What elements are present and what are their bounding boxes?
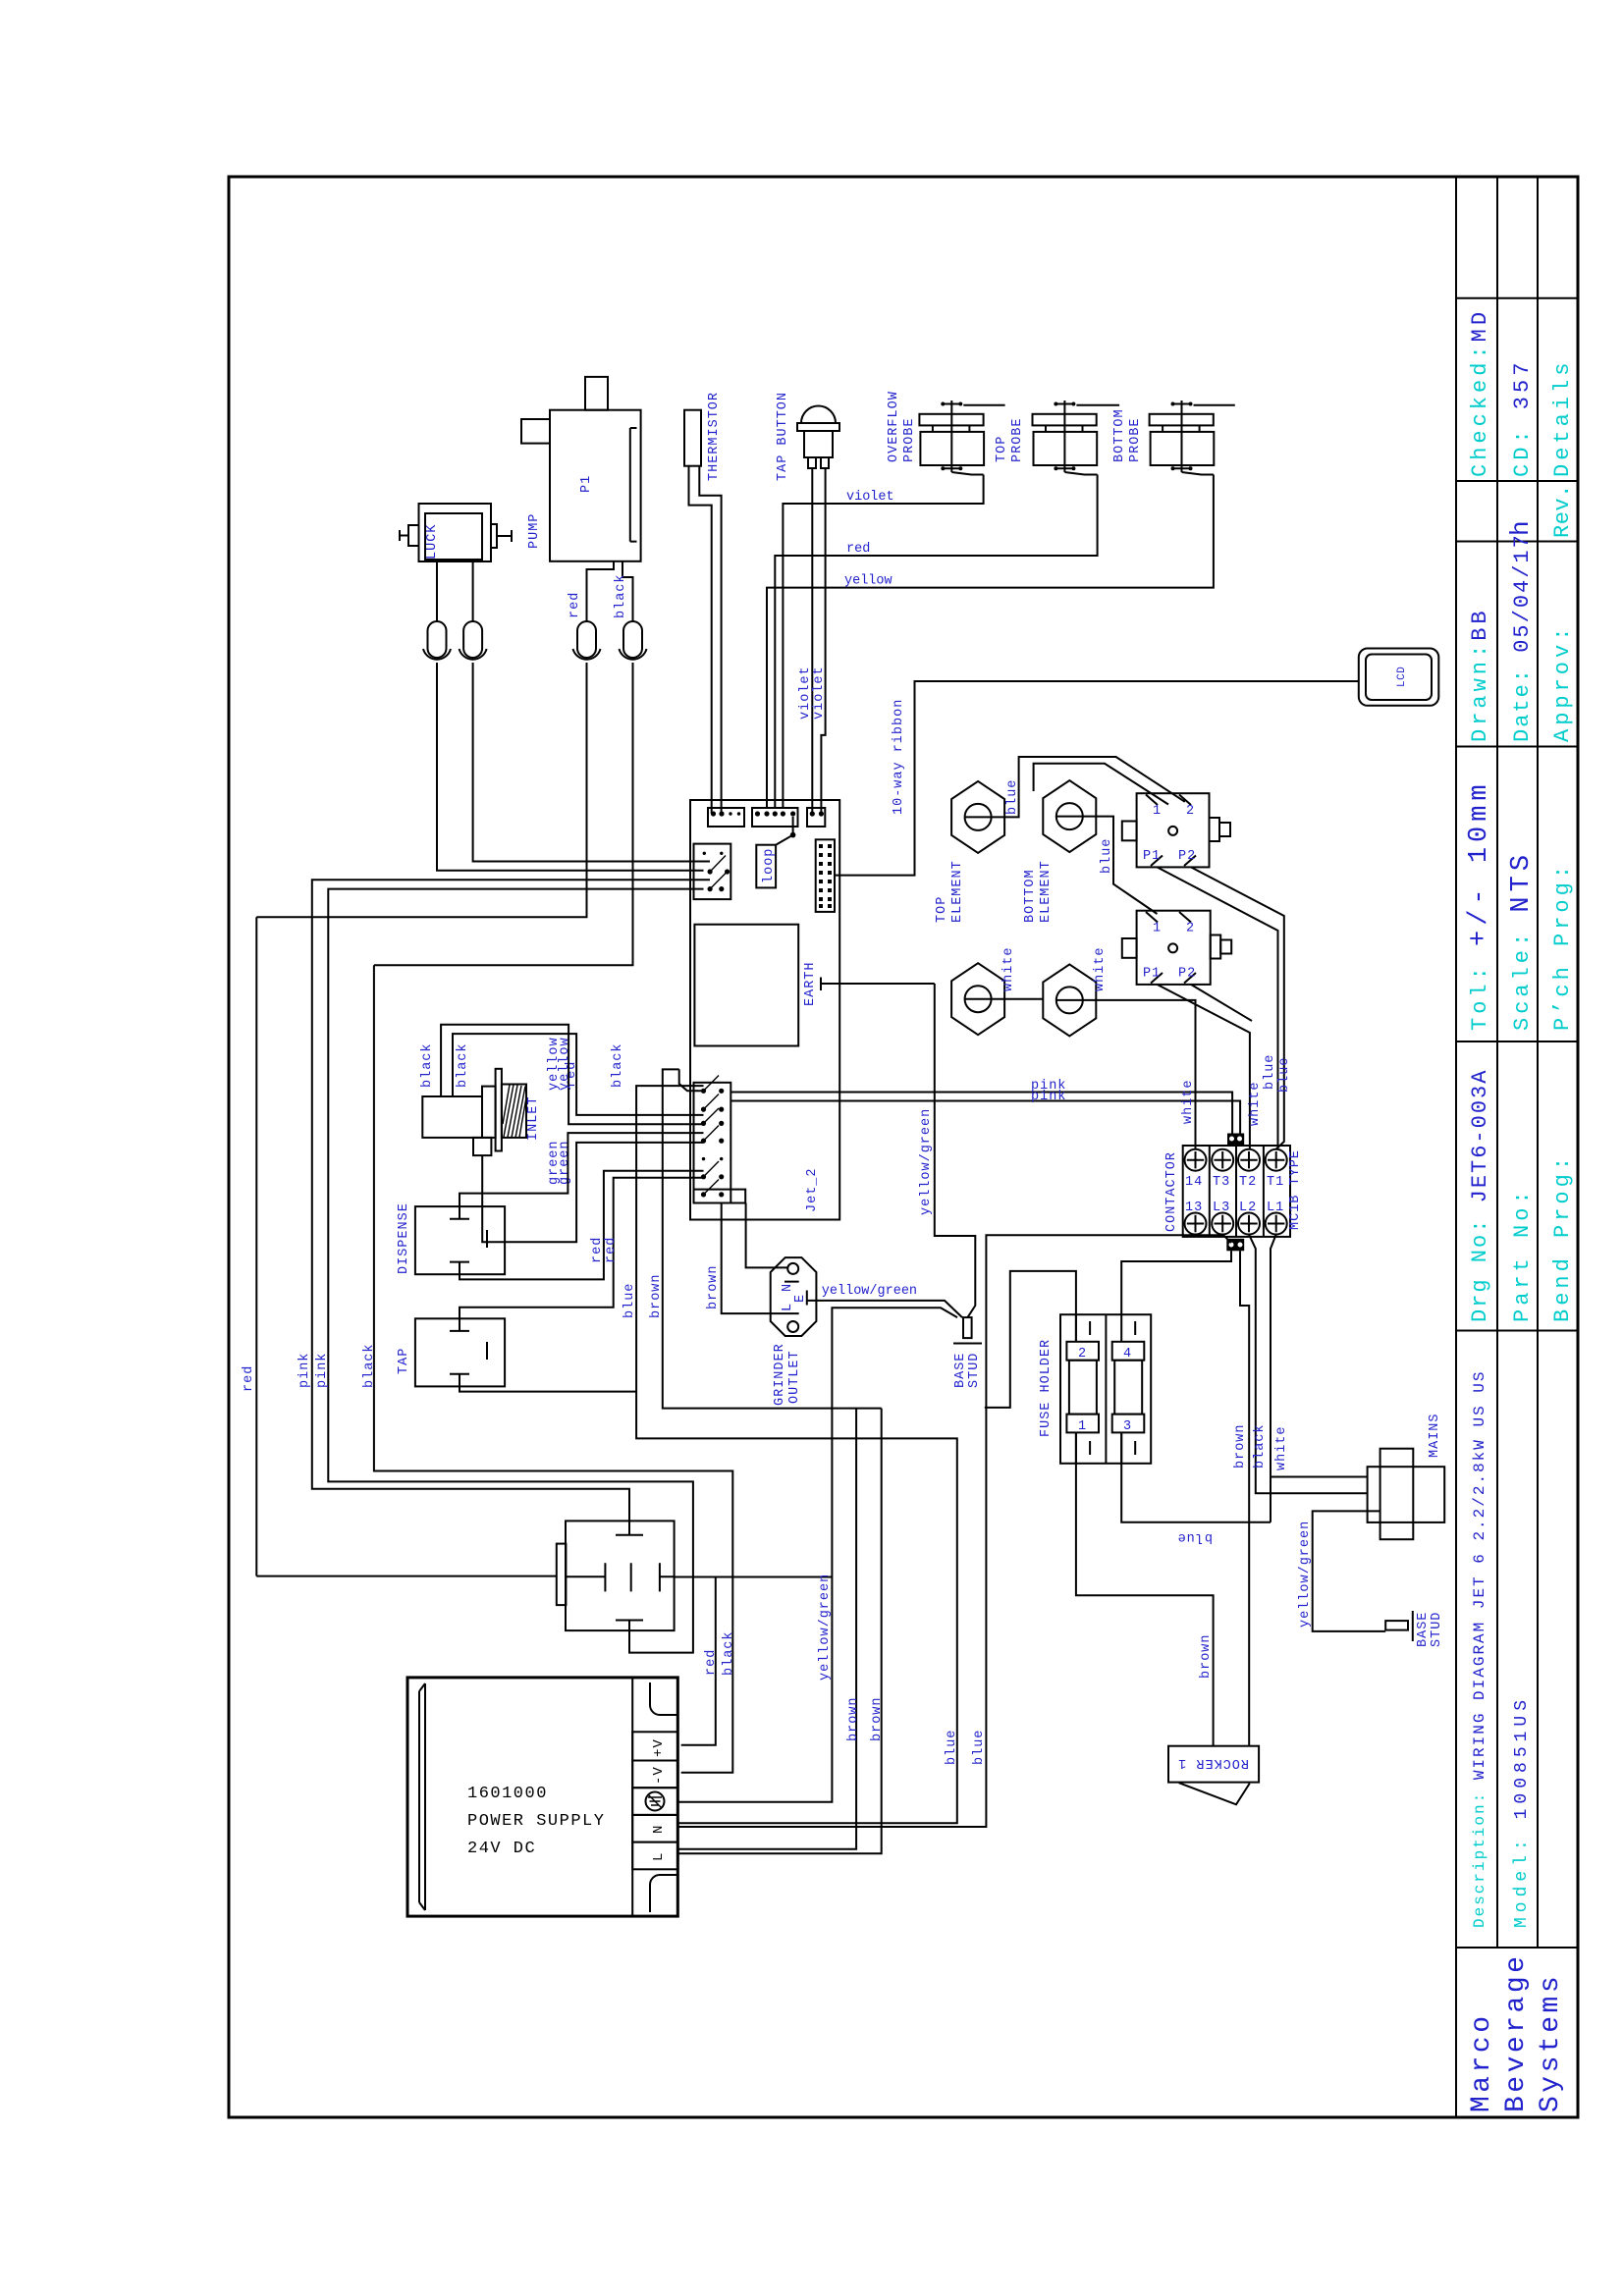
svg-text:Checked:MD: Checked:MD: [1468, 308, 1492, 477]
top element bottom terminal (hex nut): [951, 963, 1004, 1035]
svg-text:brown: brown: [1199, 1633, 1214, 1679]
svg-text:black: black: [420, 1042, 435, 1088]
svg-text:pink: pink: [298, 1353, 312, 1388]
wire pump red bullet to red bus: [256, 663, 586, 917]
svg-text:STUD: STUD: [967, 1353, 982, 1388]
thermostat 2: [1122, 911, 1231, 985]
svg-text:loop: loop: [762, 848, 777, 883]
fuse holder: [1039, 1314, 1151, 1464]
bullet connector: [577, 621, 596, 658]
svg-text:blue: blue: [972, 1730, 987, 1765]
lock switch LUCK: [419, 504, 492, 561]
title block grid: [1456, 178, 1538, 2117]
svg-text:yellow/green: yellow/green: [1298, 1521, 1313, 1628]
wire yellow/green: grinder E to base stud: [807, 1301, 962, 1317]
svg-text:N: N: [781, 1284, 795, 1292]
svg-text:yellow: yellow: [558, 1037, 572, 1091]
svg-text:13: 13: [1185, 1201, 1203, 1215]
svg-text:BOTTOM: BOTTOM: [1112, 408, 1127, 462]
contactor terminal L3: [1212, 1213, 1233, 1235]
svg-text:L1: L1: [1267, 1201, 1284, 1215]
svg-text:green: green: [558, 1140, 572, 1185]
svg-text:GRINDER: GRINDER: [773, 1343, 787, 1406]
wire pink pair to contactor connector: [730, 1093, 1240, 1134]
thermistor: [684, 410, 701, 466]
svg-text:red: red: [242, 1365, 256, 1392]
wire tap button to PCB (violet violet): [812, 468, 825, 814]
svg-text:L2: L2: [1239, 1201, 1257, 1215]
svg-text:brown: brown: [846, 1696, 861, 1741]
svg-text:CONTACTOR: CONTACTOR: [1164, 1151, 1179, 1232]
svg-text:STUD: STUD: [1430, 1612, 1444, 1647]
svg-text:h: h: [1506, 516, 1536, 536]
svg-text:THERMISTOR: THERMISTOR: [707, 392, 722, 481]
svg-text:black: black: [611, 1042, 625, 1088]
wire white: element bottom terminals to contactor T4: [992, 999, 1196, 1149]
svg-text:blue: blue: [1177, 1529, 1213, 1544]
wire thermistor to PCB: [689, 466, 722, 814]
page border frame: [229, 177, 1578, 2117]
mains connector: [1368, 1413, 1445, 1539]
svg-text:TOP: TOP: [935, 896, 949, 923]
svg-text:brown: brown: [870, 1696, 885, 1741]
svg-text:red: red: [704, 1649, 719, 1676]
svg-text:-V: -V: [651, 1766, 667, 1785]
tap button: [801, 406, 836, 423]
wire earth / yellow-green down to base stud: [935, 984, 976, 1317]
svg-text:T2: T2: [1239, 1175, 1257, 1190]
svg-text:brown: brown: [649, 1273, 664, 1318]
power supply unit: [407, 1678, 677, 1916]
wire fuse2 top loop: [985, 1271, 1076, 1408]
svg-text:red: red: [568, 592, 582, 618]
svg-text:PROBE: PROBE: [1010, 417, 1025, 462]
svg-text:L: L: [781, 1304, 795, 1311]
wire pump black bullet to black bus: [374, 663, 633, 965]
contactor terminal T2: [1238, 1149, 1260, 1171]
connector J1 (thermistor header): [708, 808, 744, 827]
loop jumper: [776, 817, 793, 845]
svg-text:ELEMENT: ELEMENT: [1039, 860, 1054, 923]
svg-text:ELEMENT: ELEMENT: [950, 860, 965, 923]
big IC block: [694, 925, 798, 1046]
bullet connector: [428, 621, 447, 658]
svg-text:+V: +V: [651, 1738, 667, 1757]
left bus wire red: [255, 917, 257, 1575]
contactor terminal T3: [1212, 1149, 1233, 1171]
svg-text:1: 1: [1078, 1419, 1087, 1434]
svg-text:P2: P2: [1178, 967, 1196, 982]
svg-text:violet: violet: [846, 490, 894, 505]
bullet connector: [463, 621, 482, 658]
svg-text:white: white: [1248, 1081, 1263, 1126]
connector 2x7 (bottom header): [694, 1083, 731, 1203]
wire 10-way ribbon: LCD to PCB header: [835, 681, 1359, 876]
wire pump to bullets (red, black): [587, 561, 633, 621]
rocker switch: [1168, 1746, 1259, 1805]
coil connector block top: [1227, 1134, 1244, 1146]
wire to fuse 4: [1121, 1251, 1231, 1314]
svg-text:INLET: INLET: [526, 1095, 541, 1141]
svg-text:Details: Details: [1550, 359, 1575, 477]
wire blue: bottom element to thermostat 2: [1083, 817, 1158, 914]
svg-text:10-way ribbon: 10-way ribbon: [892, 699, 906, 815]
svg-text:1: 1: [1153, 922, 1162, 936]
bottom element bottom terminal (hex nut): [1043, 964, 1096, 1036]
contactor terminal 13: [1185, 1213, 1207, 1235]
wire white: thermostat2 P1 to contactor T2: [1158, 867, 1284, 1148]
wire red: top probe to PCB: [775, 475, 1097, 809]
wire blue: PCB to PSU N: [636, 1086, 957, 1823]
svg-text:violet: violet: [812, 666, 827, 720]
left bus wire pink1: [312, 880, 710, 1521]
svg-text:black: black: [722, 1630, 736, 1676]
wire blue: top element to thermostat 1: [992, 757, 1185, 817]
svg-text:yellow/green: yellow/green: [822, 1284, 917, 1299]
svg-text:14: 14: [1185, 1175, 1203, 1190]
wire yellow: bottom probe to PCB: [767, 475, 1214, 809]
svg-text:OVERFLOW: OVERFLOW: [887, 391, 901, 462]
svg-text:black: black: [614, 573, 628, 618]
connector J3 (tap button header): [807, 808, 825, 827]
svg-text:Jet_2: Jet_2: [805, 1167, 820, 1212]
svg-text:2: 2: [1186, 922, 1195, 936]
svg-text:brown: brown: [1233, 1423, 1248, 1468]
svg-text:Marco: Marco: [1467, 2012, 1497, 2112]
svg-text:Drawn:BB: Drawn:BB: [1468, 607, 1492, 742]
svg-text:Approv:: Approv:: [1550, 624, 1575, 742]
wire relay left pin to red bus: [256, 1575, 557, 1577]
wire black: L2 to mains: [1249, 1235, 1368, 1494]
svg-text:2: 2: [1078, 1347, 1087, 1362]
svg-text:LCD: LCD: [1396, 667, 1408, 687]
wire relay right pin / red to +V: [675, 1577, 833, 1745]
svg-text:ROCKER 1: ROCKER 1: [1177, 1755, 1249, 1770]
svg-text:Beverage: Beverage: [1501, 1953, 1532, 2112]
svg-text:T3: T3: [1213, 1175, 1230, 1190]
svg-text:POWER SUPPLY: POWER SUPPLY: [467, 1812, 605, 1831]
base stud bottom right: [1385, 1611, 1444, 1647]
left bus wire pink2: [328, 889, 703, 1653]
svg-text:P1: P1: [1143, 849, 1161, 864]
relay box: [557, 1521, 675, 1630]
wire second top feed to thermostat 1: [1034, 764, 1168, 805]
svg-text:red: red: [846, 542, 870, 557]
svg-text:P1: P1: [579, 475, 594, 493]
contactor terminal T4: [1185, 1149, 1207, 1171]
svg-text:blue: blue: [1263, 1054, 1277, 1090]
svg-text:BASE: BASE: [953, 1353, 968, 1388]
wire grinder N to PCB: [746, 1203, 788, 1268]
svg-text:TAP BUTTON: TAP BUTTON: [776, 392, 790, 481]
svg-text:OUTLET: OUTLET: [787, 1350, 802, 1404]
thermostat 1: [1122, 793, 1230, 867]
svg-text:brown: brown: [706, 1264, 721, 1309]
svg-text:TOP: TOP: [995, 436, 1009, 462]
svg-text:Date: 05/04/17: Date: 05/04/17: [1510, 533, 1535, 742]
svg-text:P2: P2: [1178, 849, 1196, 864]
svg-text:MC1B TYPE: MC1B TYPE: [1288, 1149, 1303, 1230]
wire red pair: dispense/tap to PCB: [460, 1171, 704, 1280]
svg-text:1601000: 1601000: [467, 1785, 548, 1803]
svg-text:Drg No: JET6-003A: Drg No: JET6-003A: [1468, 1069, 1492, 1322]
svg-text:PROBE: PROBE: [902, 417, 917, 462]
svg-text:PROBE: PROBE: [1128, 417, 1143, 462]
svg-text:yellow/green: yellow/green: [919, 1108, 934, 1215]
connector 2x3 (lock/pink header): [694, 844, 731, 900]
svg-text:Tol: +/- 10mm: Tol: +/- 10mm: [1465, 779, 1494, 1031]
wire blue2 to contactor coil: [677, 1235, 1223, 1827]
svg-text:white: white: [1181, 1079, 1196, 1124]
PCB Jet_2 outline: [690, 800, 839, 1220]
svg-text:LUCK: LUCK: [425, 524, 440, 560]
dispense switch: [397, 1202, 505, 1274]
svg-text:pink: pink: [1031, 1090, 1066, 1104]
svg-text:24V DC: 24V DC: [467, 1840, 536, 1858]
wire bullets to PCB connector (black,black): [437, 663, 710, 871]
svg-text:yellow: yellow: [844, 574, 893, 589]
svg-text:PUMP: PUMP: [527, 513, 542, 549]
svg-text:1: 1: [1153, 804, 1162, 819]
wire tap bottom to blue: [460, 1386, 636, 1391]
contactor body: [1183, 1146, 1290, 1237]
base stud: [953, 1317, 982, 1388]
wire brown: coil connector to rocker: [1240, 1251, 1249, 1745]
inlet valve: [422, 1069, 541, 1155]
contactor terminal T1: [1266, 1149, 1287, 1171]
svg-text:red: red: [604, 1237, 619, 1263]
svg-text:MAINS: MAINS: [1428, 1413, 1442, 1458]
wire blue: thermostat1 bottom pins to contactor T1: [1158, 985, 1253, 1149]
wire violet: overflow probe to PCB: [783, 475, 983, 809]
svg-text:3: 3: [1123, 1419, 1132, 1434]
svg-text:L: L: [651, 1852, 667, 1861]
svg-text:Systems: Systems: [1536, 1973, 1566, 2112]
svg-text:pink: pink: [315, 1353, 330, 1388]
top probe: [995, 400, 1119, 475]
pump P1: [550, 410, 641, 561]
svg-text:blue: blue: [1277, 1057, 1292, 1093]
svg-text:4: 4: [1123, 1347, 1132, 1362]
svg-text:black: black: [1253, 1423, 1268, 1468]
svg-text:red: red: [590, 1237, 605, 1263]
grinder outlet: [771, 1257, 817, 1406]
wire yellow/green: PSU earth to base stud: [677, 1308, 957, 1802]
svg-text:CD: 357: CD: 357: [1510, 359, 1535, 477]
svg-text:BOTTOM: BOTTOM: [1023, 869, 1038, 923]
svg-text:DISPENSE: DISPENSE: [397, 1202, 411, 1274]
bottom probe: [1112, 400, 1235, 475]
wire grinder L to PCB: [722, 1203, 799, 1314]
svg-text:yellow/green: yellow/green: [818, 1574, 833, 1681]
svg-text:Part No:: Part No:: [1510, 1187, 1535, 1322]
svg-text:blue: blue: [945, 1730, 959, 1765]
top element top terminal (hex nut): [951, 781, 1004, 853]
svg-text:Bend Prog:: Bend Prog:: [1550, 1153, 1575, 1322]
wire brown2: [677, 1409, 881, 1854]
wire blue: fuse3 bottom to L1 wire: [1121, 1432, 1271, 1522]
svg-text:Rev.: Rev.: [1550, 484, 1575, 538]
svg-text:BASE: BASE: [1416, 1612, 1431, 1647]
svg-text:black: black: [362, 1343, 377, 1388]
connector J2 (probes header): [752, 808, 798, 827]
wire brown: PCB to PSU L: [663, 1069, 882, 1848]
svg-text:white: white: [1274, 1425, 1289, 1470]
tap switch: [397, 1318, 505, 1386]
svg-text:blue: blue: [1100, 838, 1114, 874]
wire green: dispense top to PCB: [460, 1133, 704, 1206]
overflow probe: [887, 391, 1005, 474]
svg-text:Scale: NTS: Scale: NTS: [1507, 850, 1537, 1031]
svg-text:2: 2: [1186, 804, 1195, 819]
svg-text:white: white: [1093, 946, 1108, 991]
wire yellow/green: mains to base stud 2: [1313, 1511, 1386, 1631]
svg-text:Description: WIRING DIAGRAM JE: Description: WIRING DIAGRAM JET 6 2.2/2.…: [1471, 1370, 1488, 1928]
svg-text:blue: blue: [1005, 779, 1020, 815]
wire green pair: inlet to PCB: [482, 1143, 703, 1242]
LCD display: [1359, 649, 1439, 706]
svg-text:black: black: [456, 1042, 470, 1088]
svg-text:white: white: [1001, 946, 1016, 991]
svg-text:Model: 100851US: Model: 100851US: [1512, 1695, 1532, 1928]
svg-text:violet: violet: [798, 666, 813, 720]
bottom element top terminal (hex nut): [1043, 780, 1096, 852]
coil connector block bottom: [1226, 1239, 1244, 1252]
svg-text:T1: T1: [1267, 1175, 1284, 1190]
contactor terminal L2: [1238, 1213, 1260, 1235]
svg-text:E: E: [793, 1295, 808, 1303]
bullet connector: [623, 621, 642, 658]
svg-text:blue: blue: [622, 1283, 637, 1318]
svg-text:N: N: [651, 1825, 667, 1834]
left bus wire black: [374, 965, 732, 1773]
header 2x8 ribbon: [816, 839, 835, 912]
wire white: L1 to mains: [1271, 1235, 1368, 1522]
svg-text:TAP: TAP: [397, 1348, 411, 1374]
svg-text:EARTH: EARTH: [803, 961, 818, 1006]
svg-text:L3: L3: [1213, 1201, 1230, 1215]
wire LUCK to bullets: [437, 561, 473, 621]
wire yellow pair: inlet to PCB: [441, 1025, 703, 1125]
svg-text:P’ch Prog:: P’ch Prog:: [1550, 862, 1575, 1031]
svg-text:P1: P1: [1143, 967, 1161, 982]
contactor terminal L1: [1266, 1213, 1287, 1235]
wire brown: fuse1 bottom to rocker: [1076, 1432, 1214, 1745]
svg-text:FUSE HOLDER: FUSE HOLDER: [1039, 1339, 1054, 1437]
